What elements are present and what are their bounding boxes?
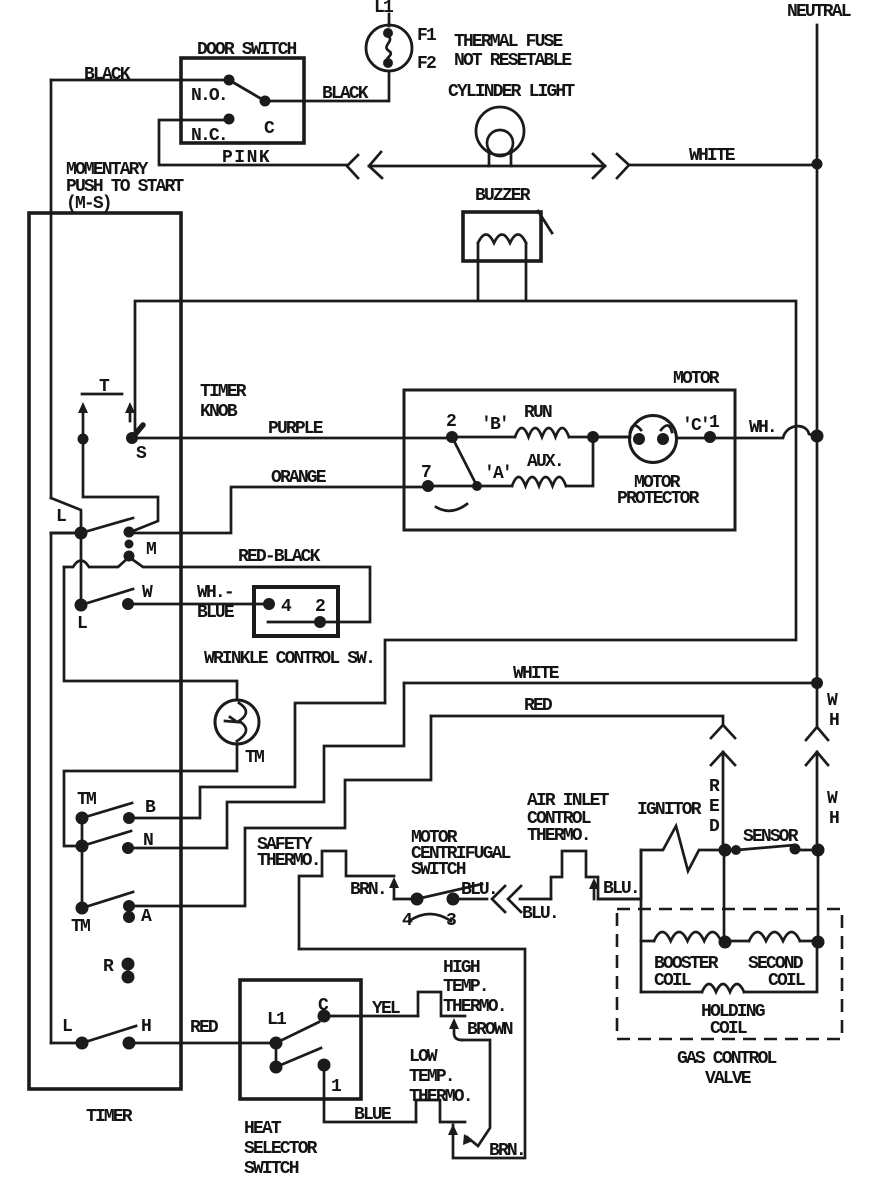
node white neutral junction	[812, 159, 823, 170]
sensor	[737, 844, 825, 857]
air inlet control thermostat	[551, 851, 641, 899]
wire main bus	[135, 301, 796, 703]
svg-text:GAS CONTROL: GAS CONTROL	[677, 1049, 777, 1069]
label SECOND COIL	[748, 954, 805, 991]
contact L arm	[81, 518, 133, 533]
thermal fuse F1 F2	[366, 25, 412, 71]
svg-text:BLUE: BLUE	[354, 1105, 392, 1125]
svg-text:BUZZER: BUZZER	[475, 186, 531, 206]
wire TM return	[64, 744, 237, 846]
label MOTOR CENTRIFUGAL SWITCH	[411, 828, 511, 880]
label MOTOR PROTECTOR	[617, 473, 700, 509]
wrinkle control switch	[254, 587, 338, 636]
wire red-black	[129, 557, 370, 622]
centrifugal switch contacts 4-3	[409, 884, 487, 921]
svg-text:PROTECTOR: PROTECTOR	[617, 489, 700, 509]
svg-text:R: R	[709, 777, 720, 797]
low temp contact arrow head	[448, 1124, 458, 1135]
contact W	[75, 589, 135, 612]
aux winding	[428, 437, 593, 486]
contact M	[124, 527, 135, 562]
svg-text:NOT RESETABLE: NOT RESETABLE	[454, 51, 572, 71]
svg-text:TM: TM	[71, 917, 90, 937]
low temp thermostat	[416, 1100, 465, 1122]
wire wh squiggle	[710, 426, 817, 438]
disconnect chevrons pink side	[347, 152, 382, 178]
svg-text:L1: L1	[374, 0, 394, 18]
svg-text:1: 1	[331, 1077, 342, 1097]
svg-text:L: L	[56, 507, 66, 527]
motor protector	[630, 416, 677, 463]
wire white stair to B contact	[129, 703, 385, 818]
svg-text:BLU.: BLU.	[522, 904, 558, 924]
svg-text:W: W	[827, 789, 838, 809]
svg-text:A: A	[141, 907, 152, 927]
svg-text:DOOR SWITCH: DOOR SWITCH	[197, 40, 297, 60]
svg-text:4: 4	[281, 597, 292, 617]
svg-text:BLU.: BLU.	[461, 880, 497, 900]
disconnect blu connector	[492, 886, 521, 912]
wire L1 stub	[388, 14, 391, 26]
wire gas valve left	[640, 850, 643, 992]
door switch C contact	[260, 96, 271, 107]
svg-text:BLU.: BLU.	[603, 879, 639, 899]
svg-text:H: H	[141, 1017, 151, 1037]
svg-text:S: S	[136, 444, 147, 464]
svg-text:WH.-: WH.-	[197, 583, 233, 603]
label BOOSTER COIL	[654, 954, 719, 991]
booster coil	[641, 932, 725, 941]
motor box	[404, 390, 735, 530]
second coil	[725, 932, 818, 941]
svg-text:W: W	[142, 583, 153, 603]
svg-text:M: M	[146, 540, 156, 560]
contact TM-B	[76, 803, 136, 846]
svg-text:D: D	[709, 817, 720, 837]
svg-text:WRINKLE CONTROL SW.: WRINKLE CONTROL SW.	[204, 649, 374, 669]
svg-text:L: L	[62, 1017, 72, 1037]
svg-text:THERMO.: THERMO.	[527, 826, 590, 846]
svg-text:SELECTOR: SELECTOR	[244, 1139, 318, 1159]
svg-text:WH.: WH.	[749, 418, 776, 438]
timer motor TM	[215, 700, 259, 744]
wire red to heat selector	[129, 1042, 276, 1045]
svg-text:COIL: COIL	[654, 971, 691, 991]
svg-text:W: W	[827, 691, 838, 711]
svg-text:WHITE: WHITE	[513, 664, 560, 684]
svg-text:THERMO.: THERMO.	[257, 851, 320, 871]
svg-text:C: C	[264, 119, 275, 139]
svg-text:'A': 'A'	[484, 464, 511, 484]
label RED vertical	[709, 777, 720, 837]
door switch N.C. contact	[224, 114, 235, 125]
disconnect red connector	[711, 725, 735, 765]
wire hop to M bottom	[64, 557, 129, 567]
svg-text:HIGH: HIGH	[443, 958, 480, 978]
door switch arm	[229, 80, 265, 101]
timer box	[29, 213, 181, 1089]
svg-text:RUN: RUN	[524, 403, 552, 423]
wire knob feed to M	[83, 439, 158, 531]
run winding	[452, 428, 630, 437]
wire wh-blue	[128, 603, 269, 606]
brown arrowhead	[463, 1134, 473, 1145]
wire purple	[132, 437, 452, 440]
svg-text:BROWN: BROWN	[467, 1020, 513, 1040]
svg-text:(M-S): (M-S)	[66, 194, 111, 214]
svg-text:3: 3	[446, 911, 456, 931]
svg-text:BLUE: BLUE	[197, 603, 235, 623]
svg-text:F1: F1	[417, 26, 437, 46]
wire black right to fuse	[265, 72, 389, 101]
svg-text:TEMP.: TEMP.	[409, 1067, 454, 1087]
timer knob arrow left	[78, 402, 88, 437]
svg-text:COIL: COIL	[710, 1019, 747, 1039]
wire safety feed	[299, 876, 322, 949]
wire pink from N.C.	[159, 120, 347, 165]
door switch N.O. contact	[224, 75, 235, 86]
node L junction	[75, 527, 88, 540]
node motor neutral junction	[811, 430, 824, 443]
svg-text:BRN.: BRN.	[489, 1141, 525, 1161]
wire white lamp section	[369, 165, 817, 166]
timer knob arrow right	[125, 402, 135, 421]
wire blue heat	[324, 1065, 416, 1122]
svg-text:AIR INLET: AIR INLET	[527, 791, 610, 811]
svg-text:H: H	[829, 809, 839, 829]
svg-text:RED: RED	[524, 696, 553, 716]
svg-text:7: 7	[421, 463, 431, 483]
wire red	[431, 716, 723, 724]
svg-text:N.O.: N.O.	[191, 86, 227, 106]
gas control valve dashed box	[617, 909, 842, 1039]
svg-text:SENSOR: SENSOR	[743, 827, 799, 847]
svg-text:2: 2	[315, 597, 325, 617]
svg-text:BLACK: BLACK	[322, 84, 369, 104]
svg-text:TIMER: TIMER	[200, 382, 247, 402]
node booster junction	[719, 936, 732, 949]
label W H upper	[827, 691, 839, 731]
svg-text:LOW: LOW	[409, 1047, 438, 1067]
svg-text:F2: F2	[417, 54, 436, 74]
heat selector contacts	[270, 1010, 331, 1074]
svg-text:L1: L1	[267, 1010, 287, 1030]
node run aux junction	[587, 431, 599, 443]
wire M to TM motor	[64, 567, 237, 700]
pin 7	[422, 480, 434, 492]
wire yel	[324, 1015, 418, 1018]
high temp contact arrow	[449, 1018, 462, 1040]
node ignitor red junction	[719, 844, 742, 857]
svg-text:TIMER: TIMER	[86, 1107, 133, 1127]
svg-text:B: B	[145, 798, 156, 818]
wire TM-A pivot	[81, 846, 84, 908]
cylinder light	[476, 107, 524, 166]
svg-text:VALVE: VALVE	[705, 1069, 752, 1089]
svg-text:AUX.: AUX.	[527, 452, 563, 472]
node knob pivot	[78, 434, 89, 445]
svg-text:N.C.: N.C.	[191, 126, 227, 146]
svg-text:'B': 'B'	[481, 415, 508, 435]
wire wh to second coil	[817, 850, 820, 942]
svg-text:'C': 'C'	[682, 416, 709, 436]
svg-text:PINK: PINK	[222, 148, 271, 168]
svg-text:THERMO.: THERMO.	[443, 997, 506, 1017]
pin 1	[704, 431, 716, 443]
svg-text:CYLINDER LIGHT: CYLINDER LIGHT	[448, 82, 575, 102]
wire black left	[51, 79, 229, 82]
wire neutral vertical	[816, 25, 819, 727]
svg-text:1: 1	[709, 413, 720, 433]
buzzer	[463, 211, 552, 300]
svg-text:RED: RED	[190, 1018, 219, 1038]
svg-text:TM: TM	[245, 748, 264, 768]
motor switch arm	[436, 437, 482, 511]
wire orange	[129, 487, 428, 533]
svg-text:KNOB: KNOB	[200, 402, 238, 422]
safety thermostat	[322, 851, 394, 876]
contact L branch	[51, 498, 81, 533]
svg-text:HEAT: HEAT	[244, 1119, 282, 1139]
contact S	[126, 425, 143, 444]
node white bus junction	[811, 677, 823, 689]
ignitor	[641, 826, 719, 899]
wire red to booster	[723, 850, 726, 942]
air inlet contact arrow	[589, 878, 599, 899]
wire blu middle	[520, 898, 551, 901]
wire main feed vertical	[50, 80, 53, 1043]
svg-text:NEUTRAL: NEUTRAL	[787, 2, 851, 22]
svg-text:YEL: YEL	[372, 999, 400, 1019]
svg-text:BLACK: BLACK	[84, 65, 131, 85]
wire protector to pin1	[677, 437, 710, 440]
node second coil junction	[812, 936, 825, 949]
svg-text:TM: TM	[77, 790, 96, 810]
wire white lower stem	[816, 752, 819, 850]
label HOLDING COIL	[701, 1002, 765, 1039]
svg-text:2: 2	[446, 412, 456, 432]
contact R	[122, 958, 135, 984]
svg-text:IGNITOR: IGNITOR	[637, 800, 702, 820]
svg-text:THERMO.: THERMO.	[409, 1087, 472, 1107]
svg-text:R: R	[103, 957, 114, 977]
svg-text:ORANGE: ORANGE	[271, 468, 327, 488]
contact L-H	[76, 1026, 137, 1050]
contact N	[76, 831, 135, 854]
svg-text:SWITCH: SWITCH	[411, 860, 466, 880]
timer knob T symbol	[82, 377, 122, 397]
svg-text:RED-BLACK: RED-BLACK	[238, 547, 321, 567]
svg-text:THERMAL FUSE: THERMAL FUSE	[454, 32, 563, 52]
svg-text:COIL: COIL	[768, 971, 805, 991]
label W H lower	[827, 789, 839, 829]
svg-text:PURPLE: PURPLE	[268, 419, 324, 439]
svg-text:TEMP.: TEMP.	[443, 977, 488, 997]
high temp thermostat	[418, 992, 465, 1016]
svg-text:WHITE: WHITE	[689, 146, 736, 166]
heat selector switch box	[240, 980, 361, 1099]
contact A	[76, 892, 136, 923]
wire brown	[462, 1040, 490, 1146]
wire red stair	[129, 716, 431, 906]
wire L stub	[51, 532, 81, 535]
wire to protector	[593, 436, 627, 439]
safety thermo contact arrow	[389, 877, 412, 899]
svg-text:MOTOR: MOTOR	[673, 369, 720, 389]
wire L-H feed	[51, 1042, 82, 1045]
svg-text:H: H	[829, 711, 839, 731]
svg-text:L: L	[77, 614, 87, 634]
wire N white stair	[128, 683, 404, 848]
svg-text:BRN.: BRN.	[350, 880, 386, 900]
wire red lower stem	[722, 752, 725, 850]
wire white bus	[404, 682, 817, 685]
disconnect white connector	[806, 727, 828, 765]
svg-text:E: E	[709, 797, 720, 817]
wire blu to ignitor	[598, 898, 641, 901]
holding coil	[641, 942, 817, 992]
pin 2	[446, 431, 458, 443]
contact W pivot wire	[80, 533, 83, 605]
door switch box	[181, 58, 304, 143]
wire bottom rail	[299, 949, 525, 1158]
svg-text:SWITCH: SWITCH	[244, 1159, 299, 1179]
disconnect chevrons white side	[593, 154, 629, 178]
